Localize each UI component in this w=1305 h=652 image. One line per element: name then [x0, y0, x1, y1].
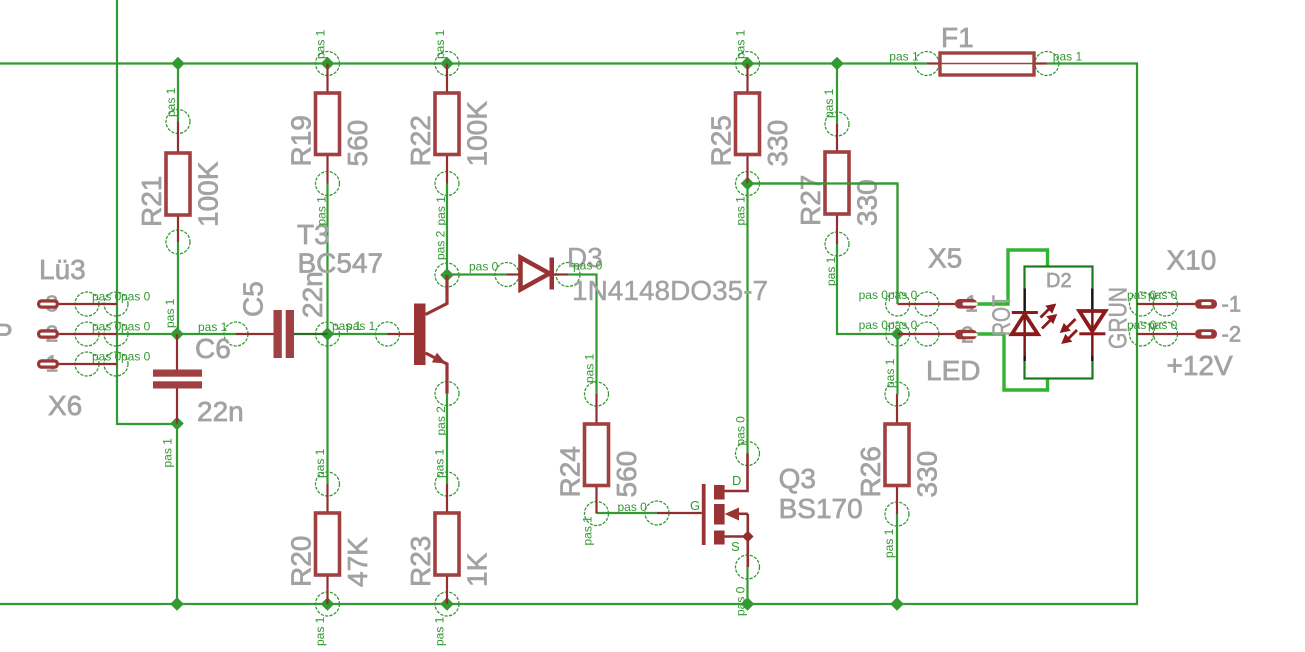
resistor R26 body and leads	[885, 394, 909, 514]
svg-text:pas 0: pas 0	[92, 290, 122, 304]
Q3 source-body junction dot	[742, 531, 754, 543]
D2 right LED (cathode down) triangle and bar	[1079, 311, 1105, 335]
junction ground rail / R23	[440, 597, 454, 611]
svg-text:pas 1: pas 1	[824, 256, 838, 286]
svg-text:R22: R22	[405, 115, 436, 166]
resistor R25 body and leads	[736, 64, 760, 184]
svg-text:pas 0: pas 0	[121, 290, 151, 304]
wire left vertical from top edge to X6 column	[117, 0, 177, 424]
svg-text:R24: R24	[555, 446, 586, 497]
svg-text:D: D	[732, 473, 741, 488]
resistor R21 body and leads	[166, 122, 190, 243]
wire X5 pin 2 to D2 box bottom (highlighted)	[968, 334, 1048, 390]
wire R21 bottom to base node	[177, 242, 179, 334]
svg-text:pas 0: pas 0	[888, 318, 918, 332]
svg-text:pas 0: pas 0	[859, 318, 889, 332]
svg-text:330: 330	[852, 179, 883, 226]
svg-text:Lü3: Lü3	[39, 254, 86, 285]
svg-text:P: P	[0, 318, 13, 349]
svg-text:pas 1: pas 1	[313, 616, 327, 646]
svg-text:pas 0: pas 0	[573, 259, 603, 273]
svg-text:pas 1: pas 1	[583, 353, 597, 383]
D2 right LED lead dark segments	[1091, 289, 1093, 362]
D2 left LED lead dark segments	[1023, 289, 1025, 362]
connector X10 pin -2 pad	[1137, 322, 1241, 347]
svg-text:X5: X5	[928, 243, 962, 274]
svg-text:pas 1: pas 1	[346, 319, 376, 333]
svg-text:pas 1: pas 1	[313, 448, 327, 478]
D2 left LED (anode up) triangle and bar	[1012, 311, 1038, 334]
svg-text:+12V: +12V	[1167, 350, 1233, 381]
svg-text:pas 1: pas 1	[434, 196, 448, 226]
connector X5 pin 1 pad	[898, 291, 978, 317]
svg-text:C6: C6	[195, 333, 231, 364]
svg-text:pas 0: pas 0	[121, 350, 151, 364]
svg-text:pas 1: pas 1	[315, 196, 329, 226]
svg-text:pas 1: pas 1	[822, 88, 836, 118]
wire R27 bottom to X5 pin 2 node	[837, 244, 898, 334]
wire top supply rail left of F1	[0, 62, 927, 64]
svg-text:-1: -1	[1222, 292, 1242, 317]
svg-text:pas 2: pas 2	[434, 406, 448, 436]
wire collector node to D3 anode	[447, 273, 507, 275]
resistor R27 body and leads	[825, 124, 849, 244]
transistor T3 BC547 symbol	[388, 275, 448, 394]
svg-text:1N4148DO35-7: 1N4148DO35-7	[572, 275, 768, 306]
capacitor C5 plates and leads	[236, 310, 328, 358]
connector X6 pin 1 pad	[37, 351, 117, 377]
diode D3 symbol	[507, 258, 568, 290]
svg-text:22n: 22n	[197, 396, 244, 427]
svg-text:R27: R27	[795, 175, 826, 226]
svg-text:F1: F1	[941, 22, 974, 53]
svg-text:R20: R20	[286, 536, 317, 587]
wire right vertical rail	[1136, 62, 1138, 605]
junction top rail / R27	[830, 57, 844, 71]
svg-text:100K: 100K	[193, 161, 224, 227]
svg-text:BS170: BS170	[779, 493, 863, 524]
svg-text:C5: C5	[238, 281, 269, 317]
svg-text:pas 0: pas 0	[469, 260, 499, 274]
wire base row from X6 column to C5 left pin	[117, 333, 236, 335]
svg-text:pas 0: pas 0	[734, 416, 748, 446]
connector X5 pin 2 pad	[898, 322, 978, 348]
resistor R23 body and leads	[435, 484, 459, 604]
junction ground rail / Q3 source	[741, 597, 755, 611]
svg-text:S: S	[731, 539, 740, 554]
junction T3 collector node	[440, 268, 454, 282]
fuse F1 symbol	[927, 53, 1047, 75]
svg-text:pas 1: pas 1	[889, 50, 919, 64]
junction ground rail / R26	[890, 597, 904, 611]
svg-text:R26: R26	[855, 446, 886, 497]
junction base row / C6 top	[170, 327, 184, 341]
wire R26 bottom to ground rail	[896, 514, 898, 604]
svg-text:pas 1: pas 1	[734, 29, 748, 59]
svg-text:pas 1: pas 1	[433, 616, 447, 646]
svg-text:pas 1: pas 1	[314, 29, 328, 59]
svg-text:pas 1: pas 1	[163, 298, 177, 328]
wire junction to R21 top pin	[177, 64, 179, 122]
D2 left LED emission arrows	[1041, 304, 1058, 329]
wire base node to T3 base pin	[328, 333, 388, 335]
svg-text:pas 1: pas 1	[164, 87, 178, 117]
wire C6 bottom to ground rail	[176, 424, 178, 605]
junction base node at C5 right pin	[321, 327, 335, 341]
svg-text:pas 1: pas 1	[734, 196, 748, 226]
connector X6 pin 2 pad	[37, 321, 117, 347]
resistor R19 body and leads	[316, 64, 340, 184]
wire R19 bottom to base node to R20 top	[326, 184, 328, 485]
wire R25 bottom to Q3 drain pin	[746, 184, 748, 454]
wire R24 bottom to Q3 gate pin	[597, 512, 658, 515]
svg-text:-2: -2	[1222, 322, 1242, 347]
capacitor C6 plates and leads	[153, 334, 202, 424]
resistor R24 body and leads	[585, 394, 609, 514]
resistor R20 body and leads	[316, 484, 340, 604]
svg-text:pas 1: pas 1	[433, 29, 447, 59]
D2 right LED emission arrows	[1060, 319, 1077, 344]
svg-text:ROT: ROT	[988, 295, 1016, 336]
svg-text:100K: 100K	[462, 101, 493, 167]
wire D3 cathode to R24 top	[568, 275, 597, 395]
wire X5 pin 1 to D2 box top (highlighted)	[968, 250, 1048, 304]
svg-text:R21: R21	[136, 176, 167, 227]
svg-text:pas 1: pas 1	[883, 358, 897, 388]
wire top supply rail right of F1	[1047, 62, 1138, 64]
junction C6 bottom	[170, 417, 184, 431]
svg-text:560: 560	[342, 120, 373, 167]
connector X6 pin 3 pad	[37, 291, 117, 317]
svg-text:G: G	[690, 498, 700, 513]
wire T3 emitter to R23 top	[446, 394, 448, 485]
junction top rail / R21 branch	[171, 57, 185, 71]
svg-text:X6: X6	[48, 390, 82, 421]
svg-text:R19: R19	[286, 115, 317, 166]
svg-text:330: 330	[762, 120, 793, 167]
junction R25 bottom node	[741, 177, 755, 191]
svg-text:pas 1: pas 1	[882, 528, 896, 558]
svg-text:pas 1: pas 1	[433, 448, 447, 478]
svg-text:pas 1: pas 1	[198, 320, 228, 334]
svg-text:pas 1: pas 1	[161, 438, 175, 468]
svg-text:D2: D2	[1046, 270, 1072, 292]
svg-text:pas 0: pas 0	[1148, 318, 1178, 332]
svg-text:pas 0: pas 0	[888, 288, 918, 302]
svg-text:Q3: Q3	[779, 463, 816, 494]
wire bottom ground rail	[0, 603, 1138, 605]
wire Q3 source to ground rail	[746, 567, 748, 604]
svg-text:BC547: BC547	[298, 248, 384, 279]
pin connection circles	[75, 52, 1178, 617]
wire R22 bottom to T3 collector node	[446, 184, 448, 276]
svg-text:R23: R23	[405, 536, 436, 587]
wire top rail to R27 top pin	[836, 64, 838, 125]
svg-text:pas 0: pas 0	[734, 586, 748, 616]
svg-text:pas 0: pas 0	[859, 288, 889, 302]
svg-text:47K: 47K	[342, 537, 373, 587]
svg-text:pas 1: pas 1	[581, 516, 595, 546]
svg-text:pas 0: pas 0	[1148, 288, 1178, 302]
svg-text:pas 0: pas 0	[618, 500, 648, 514]
svg-text:pas 2: pas 2	[434, 230, 448, 260]
junction top rail / R19	[321, 57, 335, 71]
wire R25 bottom node to X5 pin 1 (overlay crossing R27)	[748, 184, 898, 305]
junction top rail / R25	[741, 57, 755, 71]
wire X5 pin 2 node down to R26 top	[896, 334, 898, 394]
svg-text:R25: R25	[706, 115, 737, 166]
transistor Q3 BS170 symbol	[657, 454, 748, 568]
svg-text:pas 1: pas 1	[1053, 50, 1083, 64]
svg-text:LED: LED	[926, 355, 980, 386]
LED D2 box outline	[1025, 267, 1093, 379]
junction X5 pin 2 node	[891, 327, 905, 341]
svg-text:560: 560	[611, 451, 642, 498]
junction top rail / R22	[440, 57, 454, 71]
svg-text:pas 0: pas 0	[92, 320, 122, 334]
connector X10 pin -1 pad	[1137, 292, 1241, 317]
svg-text:X10: X10	[1167, 245, 1217, 276]
svg-text:330: 330	[912, 451, 943, 498]
junction ground rail / R20	[321, 597, 335, 611]
svg-text:1K: 1K	[462, 552, 493, 587]
svg-text:pas 0: pas 0	[92, 350, 122, 364]
svg-text:pas 0: pas 0	[121, 320, 151, 334]
junction ground rail / C6 branch	[170, 597, 184, 611]
resistor R22 body and leads	[435, 64, 459, 184]
wire R25 bottom node to X5 pin 1	[748, 184, 898, 305]
